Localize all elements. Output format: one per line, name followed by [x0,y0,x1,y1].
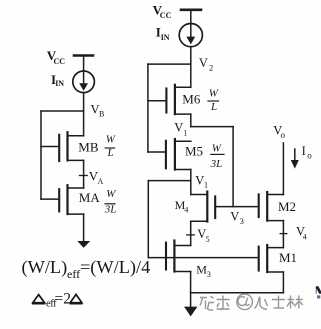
svg-text:5: 5 [206,235,210,244]
watermark zhihu [200,294,303,310]
wire V3 to gate of M2 [233,206,258,208]
transistor M2 [259,192,284,221]
svg-text:V: V [199,56,208,70]
svg-text:M1: M1 [279,250,297,265]
label node VA [89,169,104,186]
svg-text:L: L [210,101,217,113]
svg-text:=(W/L)/4: =(W/L)/4 [80,257,150,278]
svg-text:W: W [106,188,116,200]
transistor M5 [148,139,191,170]
transistor MB [41,132,84,161]
label Io [302,144,313,161]
svg-text:(W/L): (W/L) [22,257,68,278]
wire M6 source to mid node [190,114,192,127]
label node Vo [273,123,285,140]
formula (W/L)eff=(W/L)/4 [22,257,151,281]
wire VCC to current source (left) [83,56,85,72]
svg-text:I: I [302,144,306,158]
label node V1 [195,173,208,189]
label VCC (right) [153,3,172,21]
wire VB to gate rail (left) [41,110,84,112]
svg-text:M2: M2 [278,199,296,214]
label M4 [175,198,189,215]
label node V2 [199,56,213,72]
svg-text:o: o [307,151,312,161]
svg-text:A: A [98,177,104,186]
svg-text:1: 1 [183,128,187,137]
wire MA source to ground [83,214,85,241]
wire ground rail [191,292,284,294]
transistor M3 [166,241,191,272]
transistor MA [41,185,84,214]
label IIN (left) [51,72,64,88]
power VCC (left) [74,54,93,57]
wire lower gate rail vertical [147,181,149,258]
svg-text:3L: 3L [104,203,117,215]
current source IIN (right) [179,23,202,46]
label node V3 [230,209,244,226]
label M2 [278,199,296,214]
svg-text:V: V [174,121,183,135]
svg-text:IN: IN [55,79,64,88]
wire node V2 vertical [190,47,192,88]
current arrow Io [291,149,299,169]
wire Vo vertical [282,143,284,195]
label node V1 (between M6 and M5) [174,121,187,138]
letter N fragment (right edge) [316,286,321,298]
label node V4 [296,225,307,242]
label IIN (right) [156,25,170,43]
svg-text:M: M [196,263,207,277]
label M5 [185,143,203,158]
wire left gate rail [40,111,42,199]
wire V1 to lower gate rail [148,180,191,182]
svg-text:V: V [230,209,239,223]
svg-text:M6: M6 [182,91,201,106]
wire MB source to node VA [83,160,85,188]
power VCC (right) [181,9,201,12]
svg-text:3L: 3L [210,158,223,170]
ground (right) [184,307,197,317]
transistor M6 [148,85,191,114]
svg-text:V: V [195,173,204,187]
svg-text:eff: eff [67,267,80,281]
svg-text:4: 4 [184,205,188,214]
wire V3 rail vertical [232,127,234,207]
svg-text:3: 3 [240,216,244,226]
wire node VB vertical [83,93,85,136]
svg-text:W: W [209,88,219,100]
transistor M4 (gate on right) [191,192,233,222]
value W/L of MB [105,134,116,160]
node V5 tick [187,234,194,236]
svg-text:=2: =2 [55,291,72,308]
label node V5 [197,227,209,244]
svg-text:W: W [106,134,116,146]
label M1 [279,250,297,265]
svg-text:B: B [99,110,104,119]
label MB [78,140,99,155]
svg-text:3: 3 [207,270,211,279]
wire M1 source to ground rail [282,272,284,293]
transistor M1 [259,245,284,272]
svg-text:2: 2 [209,62,213,72]
wire right gate rail V2 [147,64,149,152]
node V4 tick [280,233,287,235]
svg-text:CC: CC [54,57,66,66]
svg-text:MB: MB [78,140,99,155]
svg-text:W: W [212,143,222,155]
svg-text:L: L [107,147,114,159]
svg-text:MA: MA [79,190,101,205]
label node VB [91,102,105,118]
label MA [79,190,101,205]
wire mid node to V3 rail horizontal [191,126,233,128]
wire M4 source to node V5 [190,221,192,245]
wire M5 source to node V1 [190,170,192,195]
formula delta_eff=2delta [32,291,83,310]
svg-text:CC: CC [160,11,172,20]
svg-text:IN: IN [161,33,170,42]
wire ground stem [190,293,192,307]
wire M3 source to ground rail [190,272,192,293]
svg-text:1: 1 [204,181,208,190]
label M6 [182,91,201,106]
value W/3L of MA [104,188,117,215]
wire long gate net V1 to M1 gate [148,257,258,259]
value W/L of M6 [208,88,219,113]
ground (left) [77,241,90,248]
node VA tick [80,175,88,177]
value W/3L of M5 [210,143,224,170]
current source IIN (left) [73,71,95,93]
wire VCC to current source (right) [190,10,192,24]
svg-text:M5: M5 [185,143,203,158]
svg-text:o: o [281,130,286,140]
svg-text:4: 4 [303,232,307,241]
wire M2 source to node V4 [282,221,284,248]
label M3 [196,263,211,279]
label VCC (left) [47,48,65,66]
wire V2 to gate rail (right) [148,63,191,65]
